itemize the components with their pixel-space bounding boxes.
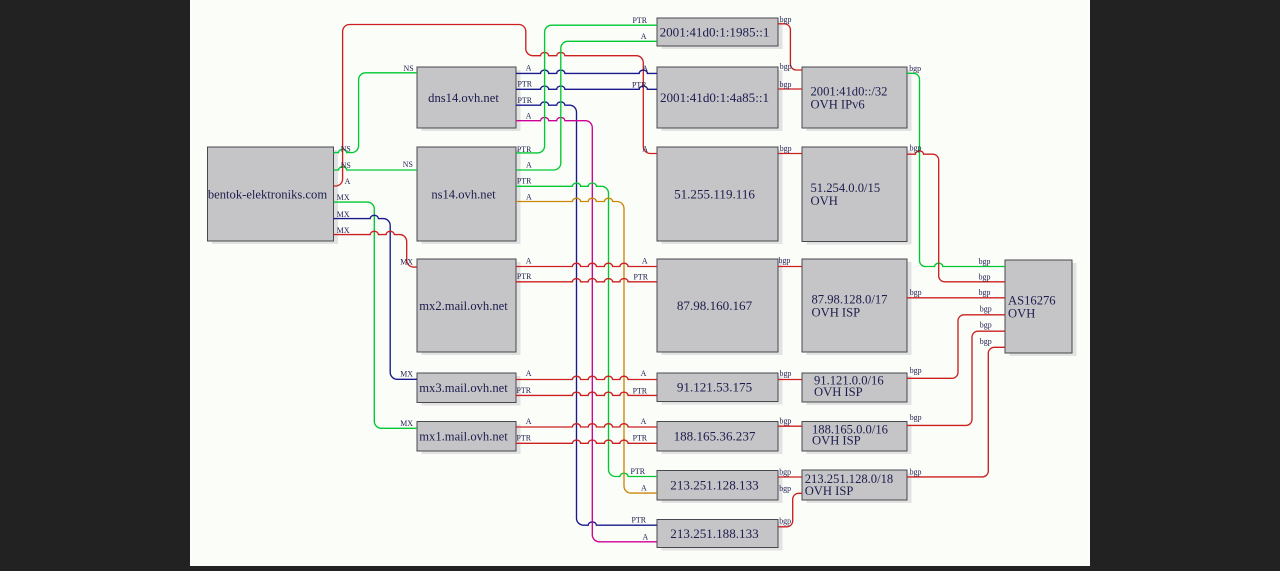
svg-text:51.255.119.116: 51.255.119.116 — [674, 186, 755, 201]
svg-text:PTR: PTR — [518, 80, 533, 89]
svg-text:dns14.ovh.net: dns14.ovh.net — [428, 91, 499, 105]
edge bentok NS ns14 — [334, 167, 418, 170]
node 91.121.53.175 — [657, 373, 783, 405]
page background — [190, 0, 1090, 566]
edge mx2 A 87.98.160.167 — [516, 263, 657, 266]
svg-text:NS: NS — [404, 64, 414, 73]
node 91.121.0.0/16 OVH ISP — [802, 373, 912, 405]
node 2001:41d0:1:4a85::1 — [657, 67, 783, 131]
svg-text:ns14.ovh.net: ns14.ovh.net — [431, 187, 496, 201]
node bentok-elektroniks.com — [208, 147, 339, 244]
edge 213.251.128.133 bgp /18 — [778, 476, 802, 478]
node 213.251.128.0/18 OVH ISP — [802, 470, 912, 503]
svg-text:A: A — [642, 64, 648, 73]
node 2001:41d0:1:1985::1 — [657, 18, 783, 49]
svg-text:A: A — [526, 417, 532, 426]
svg-text:MX: MX — [400, 419, 413, 428]
svg-text:bgp: bgp — [980, 305, 992, 314]
node dns14.ovh.net — [417, 67, 521, 131]
svg-text:bgp: bgp — [909, 64, 921, 73]
svg-text:A: A — [641, 32, 647, 41]
node 188.165.0.0/16 OVH ISP — [802, 422, 912, 455]
svg-text:NS: NS — [341, 145, 351, 154]
edge bentok MX mx1 — [334, 202, 418, 428]
node 2001:41d0::/32 OVH IPv6 — [802, 67, 912, 131]
svg-text:PTR: PTR — [631, 467, 646, 476]
svg-text:AS16276: AS16276 — [1008, 294, 1056, 308]
node AS16276 OVH — [1005, 260, 1077, 356]
svg-text:bgp: bgp — [910, 468, 922, 477]
edge /18 bgp AS16276 — [907, 347, 1005, 477]
svg-text:MX: MX — [400, 370, 413, 379]
svg-text:OVH ISP: OVH ISP — [812, 434, 861, 448]
svg-text:bgp: bgp — [980, 337, 992, 346]
svg-text:NS: NS — [341, 161, 351, 170]
edge ns14 A 1985 — [516, 41, 657, 170]
edge mx3 PTR 91.121.53.175 — [516, 392, 657, 395]
svg-text:bgp: bgp — [979, 257, 991, 266]
svg-text:OVH ISP: OVH ISP — [812, 306, 861, 320]
node mx1.mail.ovh.net — [417, 422, 521, 455]
svg-text:mx1.mail.ovh.net: mx1.mail.ovh.net — [419, 430, 508, 444]
svg-text:bgp: bgp — [779, 517, 791, 526]
node 87.98.128.0/17 OVH ISP — [802, 259, 912, 355]
edge labels — [337, 15, 992, 541]
svg-text:bgp: bgp — [979, 272, 991, 281]
edge ns14 PTR 1985 — [516, 25, 657, 153]
svg-text:A: A — [642, 257, 648, 266]
svg-text:bgp: bgp — [910, 413, 922, 422]
svg-text:MX: MX — [337, 226, 350, 235]
edge bentok NS dns14 — [334, 73, 418, 153]
svg-text:A: A — [526, 369, 532, 378]
svg-text:PTR: PTR — [633, 386, 648, 395]
edge ns14 A 213.251.128.133 — [516, 198, 657, 493]
svg-text:A: A — [641, 369, 647, 378]
edge 1985 bgp /32 — [778, 24, 802, 70]
svg-text:bgp: bgp — [780, 15, 792, 24]
edge dns14 PTR 4a85 — [516, 86, 657, 89]
svg-text:OVH: OVH — [1008, 307, 1035, 321]
svg-text:MX: MX — [400, 258, 413, 267]
edge /16b bgp AS16276 — [907, 331, 1005, 425]
svg-text:2001:41d0:1:1985::1: 2001:41d0:1:1985::1 — [660, 24, 770, 39]
node 87.98.160.167 — [657, 259, 783, 355]
svg-text:PTR: PTR — [633, 16, 648, 25]
svg-text:MX: MX — [337, 210, 350, 219]
svg-text:mx3.mail.ovh.net: mx3.mail.ovh.net — [419, 381, 508, 395]
svg-text:PTR: PTR — [633, 434, 648, 443]
svg-text:PTR: PTR — [634, 272, 649, 281]
svg-text:213.251.188.133: 213.251.188.133 — [670, 526, 759, 541]
svg-text:bgp: bgp — [910, 288, 922, 297]
svg-text:A: A — [526, 160, 532, 169]
svg-text:213.251.128.133: 213.251.128.133 — [670, 478, 759, 493]
edge bentok MX mx3 — [334, 215, 418, 379]
svg-text:bgp: bgp — [780, 80, 792, 89]
node 188.165.36.237 — [657, 422, 783, 455]
svg-text:PTR: PTR — [517, 272, 532, 281]
node 213.251.188.133 — [657, 520, 783, 551]
svg-text:91.121.53.175: 91.121.53.175 — [677, 380, 753, 395]
edge mx3 A 91.121.53.175 — [516, 376, 657, 379]
svg-text:bgp: bgp — [780, 369, 792, 378]
svg-text:51.254.0.0/15: 51.254.0.0/15 — [811, 181, 881, 195]
svg-text:bgp: bgp — [979, 288, 991, 297]
svg-text:bgp: bgp — [980, 321, 992, 330]
svg-text:OVH IPv6: OVH IPv6 — [811, 98, 865, 112]
svg-text:bgp: bgp — [780, 144, 792, 153]
edge mx1 PTR 188.165.36.237 — [516, 440, 657, 443]
svg-text:87.98.128.0/17: 87.98.128.0/17 — [812, 293, 888, 307]
edge 87.98.160.167 bgp /17 — [778, 266, 802, 268]
svg-text:PTR: PTR — [517, 145, 532, 154]
svg-text:bgp: bgp — [910, 143, 922, 152]
svg-text:bgp: bgp — [779, 467, 791, 476]
edge dns14 A 213.251.188.133 — [516, 117, 657, 541]
svg-text:bgp: bgp — [910, 366, 922, 375]
edge /32 bgp AS16276 — [907, 73, 1005, 266]
node mx3.mail.ovh.net — [417, 373, 521, 406]
node ns14.ovh.net — [417, 147, 521, 244]
svg-text:A: A — [526, 257, 532, 266]
svg-text:OVH ISP: OVH ISP — [814, 385, 863, 399]
svg-text:A: A — [526, 192, 532, 201]
svg-text:bgp: bgp — [780, 62, 792, 71]
edge mx2 PTR 87.98.160.167 — [516, 278, 657, 281]
svg-text:OVH: OVH — [811, 194, 838, 208]
svg-text:A: A — [641, 484, 647, 493]
svg-text:PTR: PTR — [517, 386, 532, 395]
svg-text:A: A — [526, 112, 532, 121]
svg-text:A: A — [643, 533, 649, 542]
edge /17 bgp AS16276 — [907, 297, 1005, 299]
svg-text:2001:41d0:1:4a85::1: 2001:41d0:1:4a85::1 — [660, 90, 769, 105]
edge 4a85 bgp /32 — [778, 88, 802, 90]
svg-text:2001:41d0::/32: 2001:41d0::/32 — [811, 85, 888, 99]
svg-text:mx2.mail.ovh.net: mx2.mail.ovh.net — [419, 299, 508, 313]
svg-text:PTR: PTR — [517, 434, 532, 443]
svg-text:A: A — [526, 64, 532, 73]
svg-text:87.98.160.167: 87.98.160.167 — [677, 298, 753, 313]
svg-text:A: A — [641, 417, 647, 426]
svg-text:bgp: bgp — [779, 484, 791, 493]
edge dns14 A 4a85 — [516, 70, 657, 73]
edge 188.165.36.237 bgp /16 — [778, 425, 802, 427]
edge /16a bgp AS16276 — [907, 315, 1005, 379]
svg-text:bentok-elektroniks.com: bentok-elektroniks.com — [208, 187, 327, 201]
edge bentok MX mx2 — [334, 231, 418, 267]
edge 91.121.53.175 bgp /16 — [778, 379, 802, 381]
edge /15 bgp AS16276 — [907, 151, 1005, 282]
edge dns14 PTR 213.251.188.133 — [516, 102, 657, 525]
svg-text:A: A — [642, 144, 648, 153]
svg-text:bgp: bgp — [780, 416, 792, 425]
svg-text:MX: MX — [337, 193, 350, 202]
edge 51.255.119.116 bgp /15 — [778, 153, 802, 155]
edge bentok A 51.255.119.116 — [334, 25, 658, 187]
svg-text:A: A — [345, 177, 351, 186]
edge ns14 PTR 213.251.128.133 — [516, 183, 657, 477]
node mx2.mail.ovh.net — [417, 259, 521, 355]
svg-text:PTR: PTR — [632, 515, 647, 524]
svg-text:188.165.36.237: 188.165.36.237 — [674, 429, 756, 444]
edge 213.251.188.133 bgp /18 — [778, 493, 802, 527]
svg-text:NS: NS — [403, 160, 413, 169]
svg-text:OVH ISP: OVH ISP — [805, 484, 854, 498]
svg-text:PTR: PTR — [632, 80, 647, 89]
node 213.251.128.133 — [657, 471, 783, 504]
edge mx1 A 188.165.36.237 — [516, 424, 657, 427]
svg-text:bgp: bgp — [779, 256, 791, 265]
node 51.255.119.116 — [657, 147, 783, 244]
svg-text:PTR: PTR — [518, 96, 533, 105]
node 51.254.0.0/15 OVH — [802, 147, 912, 245]
svg-text:PTR: PTR — [517, 177, 532, 186]
